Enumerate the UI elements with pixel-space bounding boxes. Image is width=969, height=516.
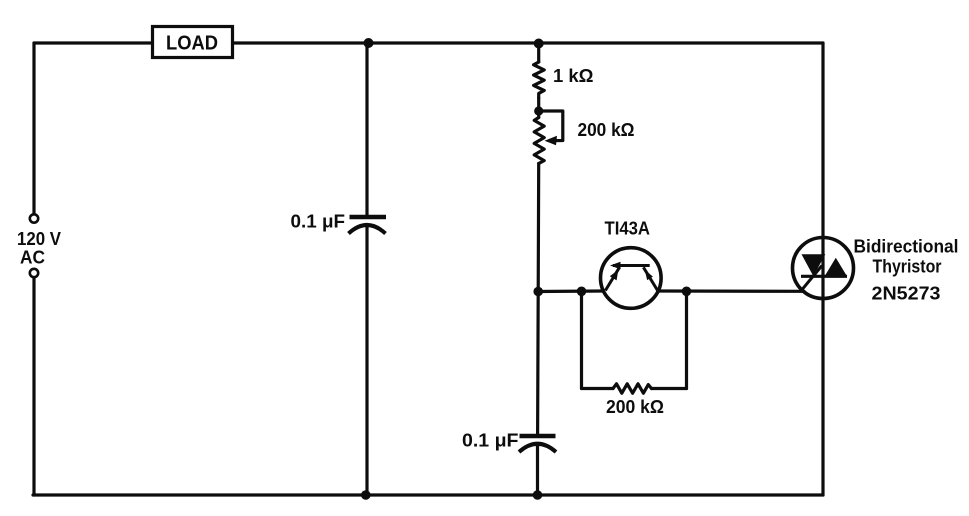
svg-text:AC: AC xyxy=(20,248,45,268)
svg-text:Bidirectional: Bidirectional xyxy=(854,236,959,257)
wire loop bottom right xyxy=(652,387,687,390)
wire loop bottom left xyxy=(582,387,614,390)
svg-text:Thyristor: Thyristor xyxy=(873,256,942,277)
wire between resistor and potentiometer xyxy=(537,98,540,118)
junction dot mid node xyxy=(533,287,543,297)
capacitor 0.1 uF top plate curved xyxy=(349,225,386,234)
trigger device TI43A circle xyxy=(601,248,662,309)
junction dot top resistor branch xyxy=(534,39,544,49)
source terminal lower xyxy=(30,269,38,277)
triac 2N5273 circle xyxy=(793,238,854,299)
source terminal upper xyxy=(30,214,38,222)
label Bidirectional Thyristor 2N5273 xyxy=(854,236,959,304)
junction dot bottom capacitor branch xyxy=(533,490,543,500)
label 120 V AC xyxy=(17,229,61,268)
junction dot bottom middle branch xyxy=(361,490,371,500)
svg-text:0.1 μF: 0.1 μF xyxy=(462,431,519,451)
wire capacitor branch lower xyxy=(365,226,368,495)
triac right triangle xyxy=(825,258,847,277)
wire right vertical (triac main lead) xyxy=(821,43,824,495)
wire left vertical upper xyxy=(32,43,35,214)
potentiometer wiper xyxy=(539,111,563,141)
svg-text:LOAD: LOAD xyxy=(166,33,218,55)
junction dot top capacitor branch xyxy=(364,38,374,48)
junction dot loop right xyxy=(682,287,692,297)
resistor 200 kOhm bypass xyxy=(613,384,652,393)
wire mid node to bottom capacitor xyxy=(536,292,540,435)
wire loop left vertical xyxy=(580,291,583,388)
wire loop right vertical xyxy=(685,291,688,388)
TI43A right lead arrowhead xyxy=(645,270,653,280)
wire left vertical lower xyxy=(32,277,35,495)
svg-text:200 kΩ: 200 kΩ xyxy=(606,397,664,417)
TI43A left lead xyxy=(605,267,619,290)
svg-text:1 kΩ: 1 kΩ xyxy=(553,66,594,86)
svg-text:0.1 μF: 0.1 μF xyxy=(291,212,346,232)
resistor 1 kOhm xyxy=(534,62,545,98)
wire bottom capacitor to bottom wire xyxy=(536,444,539,495)
wire bottom xyxy=(33,493,823,496)
TI43A right lead xyxy=(643,267,657,290)
potentiometer wiper arrowhead xyxy=(545,136,558,146)
potentiometer 200 kOhm element xyxy=(534,118,544,164)
TI43A bar left arrowhead xyxy=(610,262,621,269)
svg-text:TI43A: TI43A xyxy=(605,219,651,239)
svg-text:200 kΩ: 200 kΩ xyxy=(578,120,635,140)
wire resistor branch top xyxy=(537,43,540,62)
capacitor 0.1 uF top plate flat xyxy=(350,215,387,220)
triac center bar xyxy=(801,275,847,278)
junction dot loop left xyxy=(577,287,587,297)
junction dot potentiometer tap xyxy=(534,106,543,115)
wire mid node to TI43A left xyxy=(538,289,603,293)
svg-text:2N5273: 2N5273 xyxy=(872,283,941,304)
triac left triangle xyxy=(802,254,826,276)
triac gate lead xyxy=(800,266,822,292)
wire capacitor branch upper xyxy=(365,43,368,215)
TI43A left lead arrowhead xyxy=(610,270,619,281)
svg-text:120 V: 120 V xyxy=(17,229,61,249)
wire TI43A right to triac gate xyxy=(658,289,804,292)
wire top left xyxy=(34,41,152,44)
TI43A top bar xyxy=(613,264,650,267)
wire potentiometer to mid node xyxy=(537,164,541,292)
load box xyxy=(153,27,233,58)
capacitor 0.1 uF bottom plate curved xyxy=(519,444,556,452)
wire top middle xyxy=(233,41,823,44)
capacitor 0.1 uF bottom plate flat xyxy=(520,434,556,439)
